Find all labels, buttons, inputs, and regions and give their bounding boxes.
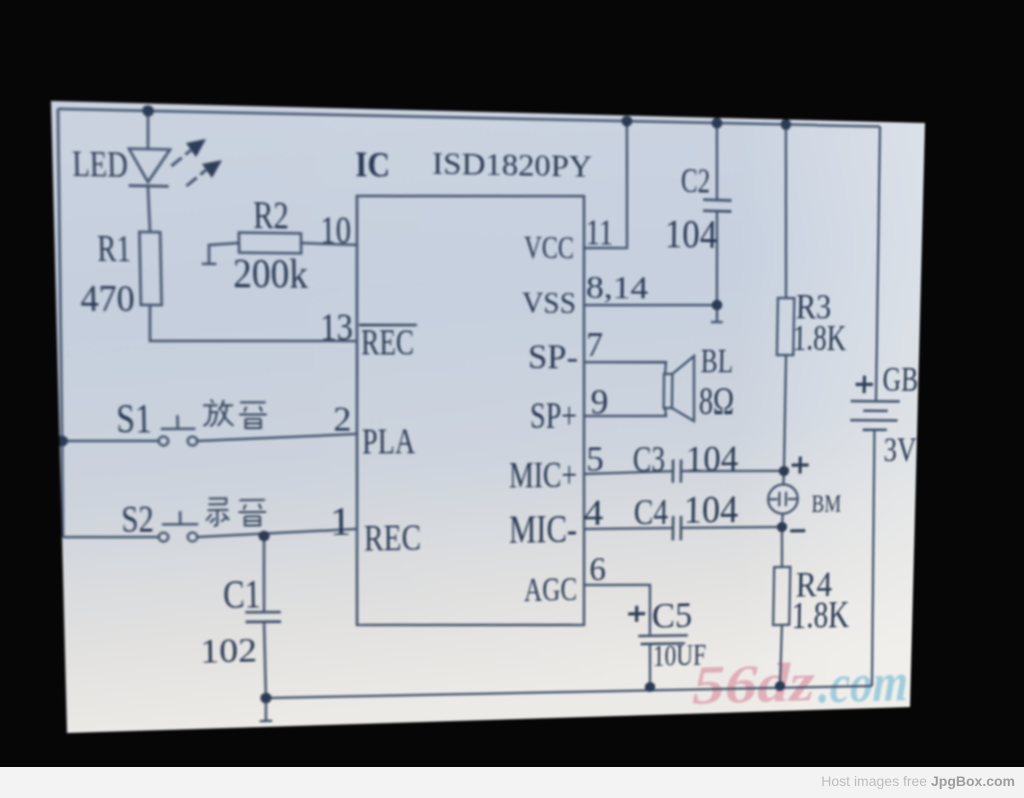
polarity marks [628, 375, 873, 622]
svg-text:PLA: PLA [362, 421, 415, 462]
svg-text:GB: GB [882, 360, 918, 399]
svg-text:470: 470 [80, 278, 135, 319]
switch S1 actuator [160, 415, 195, 429]
svg-text:REC: REC [364, 517, 421, 560]
svg-text:S2: S2 [121, 498, 154, 541]
Chinese label lu-yin (record) [206, 498, 266, 526]
svg-text:BL: BL [701, 343, 734, 380]
resistor R3 [783, 124, 789, 298]
svg-text:1.8K: 1.8K [792, 317, 847, 359]
switch S1 contacts [159, 436, 169, 445]
svg-text:VSS: VSS [522, 286, 576, 320]
svg-text:56dz: 56dz [692, 652, 816, 716]
svg-text:MIC-: MIC- [509, 506, 577, 552]
svg-text:R1: R1 [97, 228, 131, 269]
minus sign BM node [790, 529, 805, 533]
battery GB [874, 127, 883, 402]
svg-text:.com: .com [818, 652, 909, 714]
wire R2 to pin 10 [301, 243, 357, 245]
wire pin 4 MIC- [584, 528, 673, 529]
svg-text:104: 104 [684, 487, 739, 531]
capacitor C5 [584, 584, 651, 638]
svg-text:IC: IC [355, 145, 390, 185]
switch S2 actuator [162, 511, 199, 525]
svg-text:6: 6 [589, 552, 606, 588]
wire S1 to pin 2 [197, 434, 357, 441]
wire left rail [52, 109, 68, 537]
svg-text:SP+: SP+ [530, 395, 577, 436]
plus sign C5 [628, 606, 645, 622]
svg-text:11: 11 [586, 214, 613, 253]
svg-text:200k: 200k [233, 250, 309, 297]
capacitor C2 [716, 123, 718, 200]
overline for REC pin 13 [359, 324, 417, 327]
svg-text:7: 7 [586, 327, 603, 364]
watermark 56dz.com [692, 650, 909, 719]
wire pin 5 MIC+ [584, 471, 673, 474]
wire R1 to pin 13 [149, 305, 357, 342]
wire pin 8,14 VSS [584, 304, 717, 306]
svg-text:10: 10 [320, 207, 351, 252]
svg-text:LED: LED [72, 144, 128, 185]
capacitor C3 [673, 459, 681, 482]
switch S2 contacts [159, 533, 169, 542]
svg-text:C5: C5 [652, 595, 693, 636]
svg-text:SP-: SP- [528, 338, 578, 376]
plus sign battery GB [855, 376, 873, 394]
svg-text:10UF: 10UF [653, 638, 707, 674]
Chinese label fang-yin (play) [203, 399, 267, 428]
svg-text:C1: C1 [223, 570, 261, 617]
wire S2 left [63, 536, 159, 539]
resistor R2 [239, 233, 301, 254]
wire LED anode [147, 111, 149, 150]
svg-text:R2: R2 [253, 194, 289, 238]
svg-text:3V: 3V [883, 430, 917, 469]
svg-text:2: 2 [333, 401, 351, 439]
svg-text:VCC: VCC [524, 230, 574, 266]
capacitor C4 [673, 516, 681, 541]
resistor R1 [139, 232, 161, 305]
svg-text:8,14: 8,14 [586, 269, 649, 306]
wire bottom ground rail [266, 681, 872, 704]
wire S2 to pin 1 [197, 529, 357, 537]
ground stub below VSS node [711, 305, 723, 322]
svg-text:102: 102 [200, 632, 257, 671]
svg-text:4: 4 [584, 492, 604, 534]
speaker BL [664, 374, 673, 408]
svg-text:5: 5 [586, 441, 604, 479]
svg-text:S1: S1 [116, 394, 152, 441]
svg-text:13: 13 [320, 306, 353, 349]
svg-text:MIC+: MIC+ [509, 454, 577, 495]
LED diode symbol [129, 149, 171, 183]
svg-text:8Ω: 8Ω [699, 379, 735, 423]
resistor R4 [781, 527, 782, 567]
ground stub below C1 [259, 698, 272, 721]
svg-text:REC: REC [361, 324, 414, 364]
wire pin 7 SP- [584, 362, 666, 374]
wire pin 11 VCC to top rail [584, 120, 628, 248]
capacitor C1 [263, 536, 265, 612]
svg-text:C3: C3 [633, 438, 666, 479]
wire S1 left [62, 439, 159, 442]
wire LED cathode to R1 [148, 186, 150, 232]
svg-text:104: 104 [686, 438, 739, 480]
svg-text:1: 1 [329, 498, 351, 544]
svg-text:1.8K: 1.8K [791, 592, 850, 637]
microphone BM [768, 484, 798, 514]
wire R2 left stub terminal [201, 243, 239, 265]
svg-text:AGC: AGC [524, 571, 577, 609]
LED light arrows [186, 139, 222, 179]
svg-text:104: 104 [665, 211, 718, 257]
footer strip [0, 767, 1024, 798]
svg-text:ISD1820PY: ISD1820PY [432, 147, 592, 184]
wire top VCC rail [58, 106, 880, 129]
svg-text:C2: C2 [681, 162, 711, 201]
wire pin 9 SP+ [584, 408, 666, 416]
op-amp IC ISD1820PY body [354, 192, 587, 630]
svg-text:9: 9 [591, 384, 609, 422]
svg-text:BM: BM [811, 490, 841, 518]
plus sign BM node [791, 457, 808, 474]
svg-text:C4: C4 [634, 491, 669, 533]
